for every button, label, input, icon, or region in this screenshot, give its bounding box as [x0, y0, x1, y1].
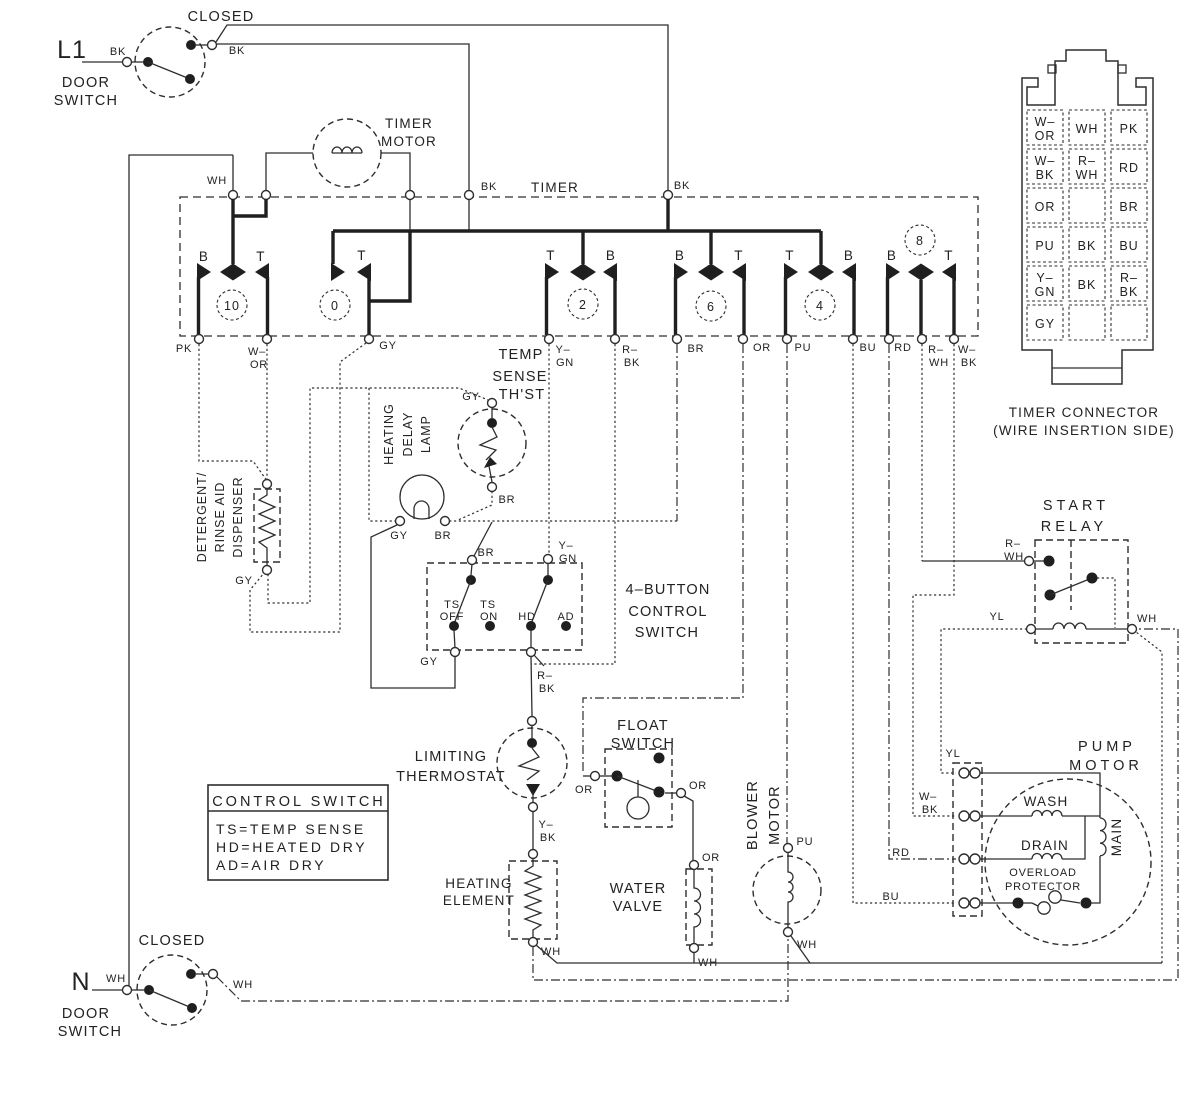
wire BK drop x469 to bus: [468, 199, 470, 231]
cam 4 B arrow: [842, 263, 856, 281]
svg-text:OR: OR: [575, 784, 593, 796]
relay WH terminal: [1128, 625, 1137, 634]
float stem and float: [637, 780, 639, 797]
door switch S1 input terminal: [123, 58, 132, 67]
connector cell RD: [1111, 149, 1147, 184]
svg-text:WH: WH: [929, 357, 949, 369]
connector cell blank 3: [1111, 305, 1147, 340]
svg-text:W–: W–: [919, 791, 937, 803]
svg-text:T: T: [785, 248, 794, 263]
svg-text:DOOR: DOOR: [62, 1006, 110, 1022]
svg-text:TS=TEMP SENSE: TS=TEMP SENSE: [216, 821, 366, 837]
svg-text:RD: RD: [894, 342, 912, 354]
svg-text:R–: R–: [622, 344, 638, 356]
svg-text:BU: BU: [1119, 239, 1138, 253]
wire BR bus to lamp: [450, 520, 677, 522]
float switch NC contact dot: [654, 787, 665, 798]
cam 2 B arrow: [603, 263, 617, 281]
svg-text:BR: BR: [435, 530, 452, 542]
svg-text:BK: BK: [1078, 239, 1097, 253]
wire timer motor right lead: [381, 153, 410, 191]
timer motor circle: [313, 119, 381, 187]
svg-text:DRAIN: DRAIN: [1021, 838, 1069, 853]
svg-text:HD=HEATED DRY: HD=HEATED DRY: [216, 839, 367, 855]
relay YL terminal: [1027, 625, 1036, 634]
wire temp sense BR to bus: [458, 491, 492, 520]
svg-text:WH: WH: [1137, 613, 1157, 625]
connector cell blank 2: [1069, 305, 1105, 340]
svg-text:L1: L1: [57, 36, 87, 64]
door switch S1 blade: [148, 62, 190, 79]
svg-text:R–: R–: [537, 670, 553, 682]
svg-text:R–: R–: [1078, 154, 1096, 168]
water valve coil: [694, 869, 701, 943]
connector cell BK 2: [1069, 266, 1105, 301]
cam 0 T arrow: [357, 263, 371, 281]
detergent dispenser box: [254, 489, 280, 562]
node timer motor left on rail: [262, 191, 271, 200]
connector cell Y-GN: [1027, 266, 1063, 301]
svg-text:BK: BK: [481, 181, 497, 193]
svg-text:WH: WH: [106, 973, 126, 985]
lamp BR terminal: [441, 517, 450, 526]
svg-text:BU: BU: [883, 891, 900, 903]
svg-text:WH: WH: [1076, 122, 1099, 136]
cam 6 diamond: [698, 264, 724, 281]
wire WH heating element to right riser: [536, 945, 1162, 963]
svg-text:GY: GY: [462, 391, 480, 403]
wire water valve to WH line: [693, 952, 695, 963]
svg-text:THERMOSTAT: THERMOSTAT: [396, 769, 506, 785]
contact TS OFF: [449, 621, 459, 631]
svg-text:MAIN: MAIN: [1109, 818, 1124, 857]
svg-text:BR: BR: [499, 494, 516, 506]
temp sense th'st circle: [458, 409, 526, 477]
svg-text:YL: YL: [945, 748, 960, 760]
svg-text:OR: OR: [689, 780, 707, 792]
wire R-BK from timer: [531, 344, 615, 664]
wire N lead: [92, 989, 122, 991]
svg-text:CLOSED: CLOSED: [188, 9, 255, 25]
svg-text:2: 2: [579, 298, 587, 312]
wire R-WH from timer to relay: [921, 344, 923, 561]
svg-text:PU: PU: [1035, 239, 1054, 253]
limiting thermostat circle: [497, 728, 567, 798]
relay blade: [1050, 578, 1092, 595]
connector pair RD: [959, 854, 969, 864]
cam 8 T arrow: [942, 263, 956, 281]
door switch S2 blade contact: [187, 1003, 197, 1013]
connector pair YL: [959, 768, 969, 778]
svg-text:W–: W–: [248, 346, 266, 358]
limiting thermostat top terminal: [528, 717, 537, 726]
wire W-OR drop: [266, 344, 268, 480]
svg-text:BK: BK: [674, 180, 690, 192]
svg-text:4–BUTTON: 4–BUTTON: [625, 582, 710, 598]
timer connector bottom tab line: [1052, 367, 1122, 369]
cam 4 diamond: [808, 264, 834, 281]
limiting thermostat arrow: [526, 784, 540, 796]
svg-text:0: 0: [331, 299, 339, 313]
svg-text:WH: WH: [1076, 168, 1099, 182]
connector cell blank 1: [1069, 188, 1105, 223]
svg-text:R–: R–: [1005, 538, 1021, 550]
svg-text:BK: BK: [229, 45, 245, 57]
node R-WH: [918, 335, 927, 344]
cam 0 left arrow: [331, 263, 345, 281]
svg-text:BK: BK: [922, 804, 938, 816]
lamp GY terminal: [396, 517, 405, 526]
wire blower to WH line: [791, 936, 810, 963]
main winding: [1100, 818, 1106, 856]
float switch blade: [617, 776, 659, 792]
cam 6 T arrow: [732, 263, 746, 281]
node BR: [673, 335, 682, 344]
svg-text:GY: GY: [390, 530, 408, 542]
connector cell WH: [1069, 110, 1105, 145]
limiting thermostat bimetal element: [519, 748, 539, 780]
svg-text:6: 6: [707, 300, 715, 314]
wire BK second run to timer: [217, 44, 469, 191]
connector cell PU: [1027, 227, 1063, 262]
wire BK bus: [333, 229, 821, 232]
wire lamp GY to 4-button GY: [371, 525, 455, 688]
svg-text:SWITCH: SWITCH: [635, 625, 699, 641]
svg-text:MOTOR: MOTOR: [381, 134, 437, 149]
svg-text:LAMP: LAMP: [419, 415, 433, 453]
connector cell W-OR: [1027, 110, 1063, 145]
svg-text:RD: RD: [1119, 161, 1139, 175]
wire WH dash-dot loop: [533, 629, 1178, 980]
overload protector element: [1032, 903, 1038, 906]
svg-text:YL: YL: [989, 611, 1004, 623]
wire WH right riser to relay: [1136, 632, 1162, 963]
4-button BR terminal: [468, 556, 477, 565]
wire BR from timer down: [676, 344, 678, 521]
wire YL to main winding: [980, 773, 1100, 818]
svg-text:TIMER: TIMER: [385, 116, 433, 131]
svg-text:DELAY: DELAY: [401, 411, 415, 456]
dispenser resistor: [259, 488, 275, 566]
lamp filament: [414, 501, 429, 519]
svg-text:TEMP: TEMP: [498, 347, 543, 363]
svg-text:RELAY: RELAY: [1041, 519, 1107, 535]
svg-text:RINSE AID: RINSE AID: [213, 482, 227, 553]
cam 10 T arrow: [255, 263, 269, 281]
svg-text:W–: W–: [1035, 154, 1056, 168]
dispenser top terminal: [263, 480, 272, 489]
svg-text:T: T: [546, 248, 555, 263]
heating element box: [509, 861, 557, 939]
node PU: [783, 335, 792, 344]
door switch S2 output contact: [186, 969, 196, 979]
svg-text:B: B: [606, 248, 616, 263]
cam 8 number: [905, 225, 935, 255]
svg-text:W–: W–: [958, 344, 976, 356]
connector pair W-BK: [959, 811, 969, 821]
svg-text:GY: GY: [1035, 317, 1055, 331]
connector pair BU: [959, 898, 969, 908]
contact TS ON: [485, 621, 495, 631]
svg-text:Y–: Y–: [555, 344, 570, 356]
connector cell R-BK: [1111, 266, 1147, 301]
connector strip box: [953, 763, 982, 916]
cam 2 diamond: [570, 264, 596, 281]
node OR: [739, 335, 748, 344]
cam 0 number: [320, 290, 350, 320]
cam 6 number: [696, 291, 726, 321]
svg-text:GY: GY: [235, 575, 253, 587]
svg-text:T: T: [256, 249, 265, 264]
relay coil: [1035, 628, 1053, 630]
svg-text:MOTOR: MOTOR: [767, 785, 783, 845]
door switch S1 output contact: [186, 40, 196, 50]
cam 2 T arrow: [545, 263, 559, 281]
svg-text:OR: OR: [1035, 129, 1056, 143]
door switch S2 output terminal: [209, 970, 218, 979]
heating element bottom terminal: [529, 938, 538, 947]
door switch S2 common contact: [144, 985, 154, 995]
temp sense bottom terminal: [488, 483, 497, 492]
wire BK drop x668 to bus: [666, 199, 669, 231]
svg-text:TS: TS: [444, 599, 460, 611]
wire BK top run to timer BK node: [216, 25, 668, 191]
blower motor winding: [788, 852, 793, 928]
svg-text:TS: TS: [480, 599, 496, 611]
relay fixed contact dot: [1087, 573, 1098, 584]
svg-text:ELEMENT: ELEMENT: [443, 893, 515, 908]
wire HD to R-BK terminal: [530, 630, 532, 648]
door switch S2 circle: [137, 955, 207, 1025]
dispenser bottom terminal: [263, 566, 272, 575]
connector cell BK 1: [1069, 227, 1105, 262]
svg-text:BK: BK: [1078, 278, 1097, 292]
svg-text:AD=AIR DRY: AD=AIR DRY: [216, 857, 326, 873]
cam 10 number: [217, 290, 247, 320]
svg-text:BU: BU: [860, 342, 877, 354]
wire float switch to water valve: [684, 796, 693, 860]
svg-text:SWITCH: SWITCH: [54, 93, 118, 109]
svg-text:HD: HD: [518, 611, 536, 623]
timer connector housing outline: [1022, 50, 1153, 384]
svg-text:OR: OR: [250, 359, 268, 371]
blower motor top terminal: [784, 844, 793, 853]
wire GY from rail to dispenser bottom: [250, 343, 366, 632]
svg-text:MOTOR: MOTOR: [1069, 758, 1143, 774]
wire N switch to blower: [217, 937, 788, 1001]
wire WH feed to cam 10 diamond: [231, 199, 234, 264]
wire GY branch to lamp: [369, 388, 395, 521]
node BU: [849, 335, 858, 344]
svg-text:Y–: Y–: [1036, 271, 1053, 285]
cam 8 B arrow: [886, 263, 900, 281]
cam 4 T arrow: [784, 263, 798, 281]
svg-text:OVERLOAD: OVERLOAD: [1009, 867, 1077, 879]
overload protector row: [980, 902, 1013, 904]
svg-text:WH: WH: [233, 979, 253, 991]
wire R-BK to thermostat: [531, 656, 532, 716]
svg-text:AD: AD: [558, 611, 575, 623]
wire Y-GN drop: [548, 344, 550, 555]
svg-text:OFF: OFF: [440, 611, 464, 623]
svg-text:DETERGENT/: DETERGENT/: [195, 472, 209, 563]
limiting thermostat contact dot: [527, 738, 537, 748]
svg-text:BK: BK: [1120, 285, 1139, 299]
svg-text:B: B: [675, 248, 685, 263]
svg-text:HEATING: HEATING: [445, 876, 512, 891]
float switch box: [605, 749, 672, 827]
svg-text:OR: OR: [702, 852, 720, 864]
wire BU from timer: [853, 344, 956, 903]
wire OR from timer down: [583, 344, 743, 772]
node R-BK: [611, 335, 620, 344]
wash winding row: [980, 815, 1032, 817]
svg-text:BK: BK: [961, 357, 977, 369]
connector cell OR: [1027, 188, 1063, 223]
svg-text:BR: BR: [688, 343, 705, 355]
node W-BK: [950, 335, 959, 344]
temp sense top terminal: [488, 399, 497, 408]
wire bridge WH to timer motor: [233, 199, 266, 216]
svg-text:BR: BR: [478, 547, 495, 559]
water valve bottom terminal: [690, 944, 699, 953]
node W-OR: [263, 335, 272, 344]
svg-text:T: T: [944, 248, 953, 263]
contact HD: [526, 621, 536, 631]
svg-text:B: B: [887, 248, 897, 263]
wire W-BK from timer to connector: [913, 344, 956, 816]
temp sense contact dot: [487, 418, 497, 428]
svg-text:R–: R–: [1120, 271, 1138, 285]
svg-text:BK: BK: [1036, 168, 1055, 182]
svg-text:WATER: WATER: [610, 881, 667, 897]
svg-text:CONTROL: CONTROL: [628, 604, 707, 620]
contact AD: [561, 621, 571, 631]
relay moving contact dot: [1045, 590, 1056, 601]
svg-text:PU: PU: [797, 836, 814, 848]
svg-text:TIMER: TIMER: [531, 180, 579, 195]
cam 10 B arrow: [197, 263, 211, 281]
start relay box: [1035, 540, 1128, 643]
door switch S1 output terminal: [208, 41, 217, 50]
water valve top terminal: [690, 861, 699, 870]
limiting thermostat bottom terminal: [529, 803, 538, 812]
svg-text:GY: GY: [420, 656, 438, 668]
svg-text:BR: BR: [1119, 200, 1138, 214]
timer dashed enclosure: [180, 197, 978, 336]
door switch S1 circle: [135, 27, 205, 97]
float switch left contact dot: [600, 775, 612, 777]
heating element top terminal: [529, 850, 538, 859]
4-button left blade: [454, 580, 471, 624]
cam 6 B arrow: [674, 263, 688, 281]
svg-text:GN: GN: [1035, 285, 1056, 299]
door switch S1 common contact: [143, 57, 153, 67]
connector cell R-WH: [1069, 149, 1105, 184]
door switch S1 blade contact: [185, 74, 195, 84]
wire WH drop to timer rail: [232, 155, 234, 191]
4-button right pole dot: [543, 575, 553, 585]
svg-text:OR: OR: [1035, 200, 1056, 214]
svg-text:R–: R–: [928, 344, 944, 356]
4-button control switch box: [427, 563, 582, 650]
svg-text:BK: BK: [539, 683, 555, 695]
svg-text:FLOAT: FLOAT: [617, 718, 669, 734]
connector cell GY: [1027, 305, 1063, 340]
4-button right blade: [531, 580, 548, 624]
node RD: [885, 335, 894, 344]
blower motor circle: [753, 856, 821, 924]
svg-text:GY: GY: [379, 340, 397, 352]
float switch upper contact dot: [654, 753, 665, 764]
connector cell BR: [1111, 188, 1147, 223]
svg-text:WH: WH: [1004, 551, 1024, 563]
wire TS OFF to GY terminal: [454, 630, 455, 648]
svg-text:Y–: Y–: [538, 819, 553, 831]
cam 4 number: [805, 290, 835, 320]
pump motor circle: [985, 779, 1151, 945]
svg-text:ON: ON: [480, 611, 498, 623]
svg-text:BK: BK: [624, 357, 640, 369]
svg-text:TH'ST: TH'ST: [499, 387, 546, 403]
svg-text:W–: W–: [1035, 115, 1056, 129]
svg-text:4: 4: [816, 299, 824, 313]
wire BR bus to 4-button BR: [474, 522, 492, 556]
wire L1 lead: [82, 61, 122, 63]
svg-text:WASH: WASH: [1024, 794, 1069, 809]
svg-text:T: T: [357, 248, 366, 263]
svg-text:WH: WH: [207, 175, 227, 187]
node BK 1 on rail: [465, 191, 474, 200]
svg-text:T: T: [734, 248, 743, 263]
wire YL from relay to connector: [941, 629, 1027, 773]
svg-text:PUMP: PUMP: [1078, 739, 1136, 755]
svg-text:DISPENSER: DISPENSER: [231, 476, 245, 557]
temp sense bimetal element: [480, 427, 497, 460]
relay input contact dot: [1044, 556, 1055, 567]
svg-text:PROTECTOR: PROTECTOR: [1005, 881, 1081, 893]
cam 8 diamond: [908, 264, 934, 281]
svg-text:PK: PK: [1120, 122, 1139, 136]
4-button left pole dot: [466, 575, 476, 585]
node timer motor right on rail: [406, 191, 415, 200]
water valve box: [686, 869, 712, 945]
connector cell PK: [1111, 110, 1147, 145]
svg-text:VALVE: VALVE: [613, 899, 664, 915]
4-button GY terminal: [451, 648, 460, 657]
4-button R-BK terminal: [527, 648, 536, 657]
svg-text:N: N: [71, 968, 90, 996]
4-button Y-GN terminal: [544, 555, 553, 564]
heating delay lamp circle: [400, 475, 444, 519]
node PK: [195, 335, 204, 344]
svg-text:B: B: [199, 249, 209, 264]
wire GY dispenser to temp sense: [268, 388, 488, 603]
svg-text:OR: OR: [753, 342, 771, 354]
cam 2 number: [568, 289, 598, 319]
node WH on rail: [229, 191, 238, 200]
svg-text:B: B: [844, 248, 854, 263]
svg-text:Y–: Y–: [558, 540, 573, 552]
svg-text:PK: PK: [176, 343, 192, 355]
wire WH left loop: [129, 155, 233, 986]
node BK 2 on rail: [664, 191, 673, 200]
svg-text:DOOR: DOOR: [62, 75, 110, 91]
cam 10 diamond: [220, 264, 246, 281]
svg-text:BK: BK: [540, 832, 556, 844]
svg-text:LIMITING: LIMITING: [415, 749, 487, 765]
svg-text:SENSE: SENSE: [492, 369, 547, 385]
